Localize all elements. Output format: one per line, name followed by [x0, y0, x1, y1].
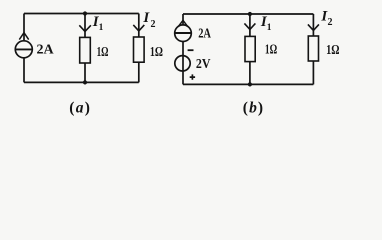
wire: circuit (a) left branch upper segment — [23, 14, 25, 41]
svg-text:2V: 2V — [196, 57, 211, 72]
current source Is=2A (a) circle — [15, 41, 32, 58]
wire: circuit (b) right branch lower segment — [312, 61, 314, 84]
wire: circuit (b) middle branch upper segment with I1 arrow — [249, 14, 251, 36]
current source 2A (b) arrowhead — [178, 20, 187, 26]
svg-text:I1: I1 — [260, 14, 272, 33]
wire: circuit (b) left branch top segment — [182, 14, 184, 25]
wire: circuit (a) right branch upper segment with I2 arrow — [138, 14, 140, 38]
node: junction dot (b) bottom middle — [248, 82, 252, 86]
svg-text:I2: I2 — [320, 8, 332, 28]
resistor R1=1ohm (b) body — [245, 36, 255, 61]
wire: circuit (a) middle branch upper segment with I1 arrow — [84, 14, 86, 38]
plus terminal mark of 2V source — [190, 74, 195, 79]
voltage source 2V (b) circle — [175, 56, 190, 71]
svg-text:1Ω: 1Ω — [326, 43, 339, 58]
node: junction dot (a) bottom middle — [83, 80, 87, 84]
current source 2A (b) circle — [175, 25, 192, 42]
wire: circuit (b) right branch upper segment with I2 arrow — [312, 14, 314, 36]
svg-text:1Ω: 1Ω — [265, 42, 277, 57]
wire: circuit (b) bottom rail — [183, 83, 313, 85]
arrowhead current I2 (b) — [308, 24, 319, 30]
svg-text:I2: I2 — [142, 10, 155, 30]
svg-text:2A: 2A — [198, 27, 211, 42]
current source 2A (b) bar — [175, 32, 192, 34]
wire: circuit (a) middle branch lower segment — [84, 63, 86, 82]
svg-text:(b): (b) — [243, 100, 263, 117]
resistor R1=1ohm (a) body — [80, 37, 91, 63]
arrowhead current I1 (b) — [244, 23, 255, 29]
current source Is=2A (a) bar — [15, 48, 32, 50]
wire: circuit (b) left branch through voltage source to bottom rail — [182, 42, 184, 85]
node: junction dot (b) top middle — [248, 12, 252, 16]
resistor R2=1ohm (a) body — [134, 37, 145, 62]
svg-text:1Ω: 1Ω — [150, 45, 163, 60]
wire: circuit (a) top rail — [24, 13, 139, 15]
wire: circuit (a) left branch lower segment — [23, 58, 25, 83]
wire: circuit (a) bottom rail — [24, 81, 139, 83]
current source Is=2A (a) arrowhead — [19, 33, 28, 40]
wire: circuit (b) top rail — [183, 13, 313, 15]
wire: circuit (a) right branch lower segment — [138, 62, 140, 82]
arrowhead current I1 (a) — [79, 25, 91, 31]
svg-text:1Ω: 1Ω — [97, 45, 109, 60]
svg-text:(a): (a) — [69, 99, 90, 116]
minus terminal mark of 2V source — [188, 49, 194, 51]
arrowhead current I2 (a) — [133, 25, 144, 31]
resistor R2=1ohm (b) body — [308, 36, 318, 61]
svg-text:I1: I1 — [92, 14, 104, 33]
svg-text:2A: 2A — [37, 42, 55, 57]
node: junction dot (a) top middle — [83, 11, 87, 15]
wire: circuit (b) middle branch lower segment — [249, 62, 251, 85]
